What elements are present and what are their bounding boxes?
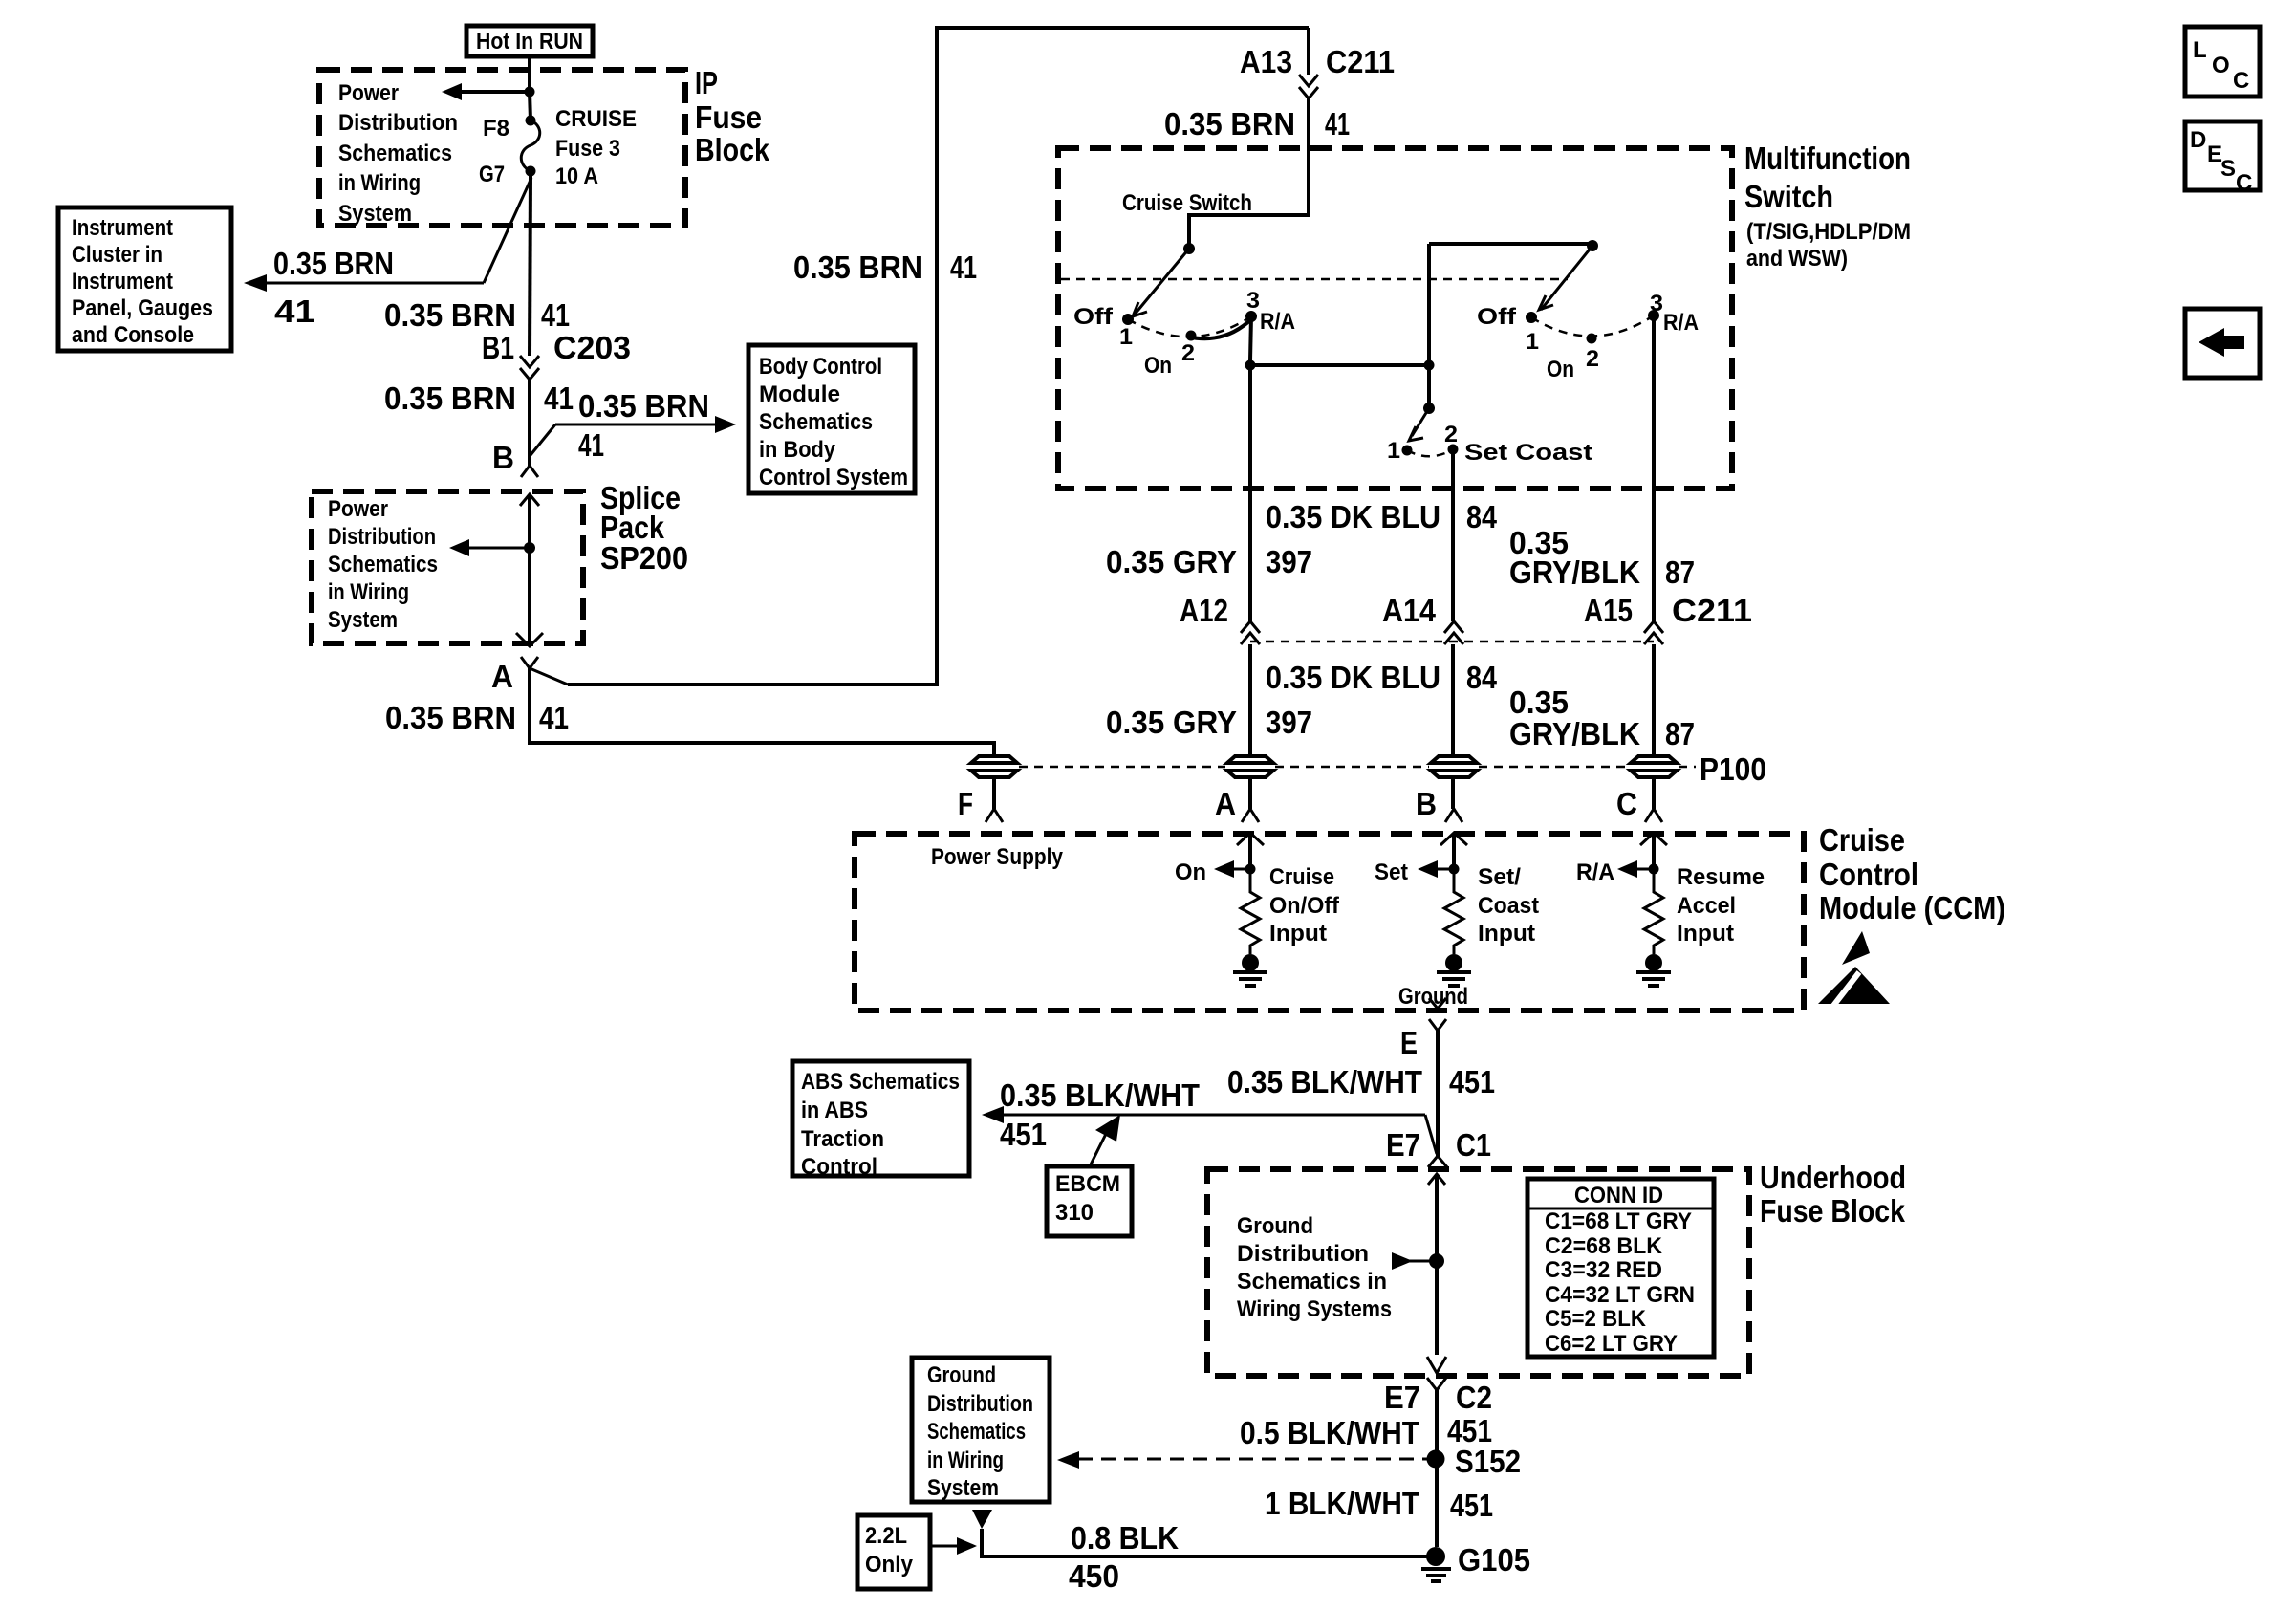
svg-text:Fuse Block: Fuse Block	[1760, 1193, 1906, 1229]
svg-text:0.35 BRN: 0.35 BRN	[1164, 106, 1295, 141]
svg-text:F: F	[958, 786, 973, 821]
svg-text:System: System	[927, 1475, 999, 1501]
svg-text:Instrument: Instrument	[72, 215, 173, 241]
svg-text:A15: A15	[1584, 593, 1633, 628]
svg-text:451: 451	[1449, 1064, 1495, 1099]
svg-text:C211: C211	[1672, 593, 1752, 628]
svg-text:0.35 BRN: 0.35 BRN	[385, 700, 516, 735]
svg-text:Off: Off	[1073, 304, 1114, 330]
svg-text:1 BLK/WHT: 1 BLK/WHT	[1265, 1486, 1419, 1521]
svg-text:Distribution: Distribution	[338, 110, 458, 136]
svg-text:10 A: 10 A	[555, 163, 598, 189]
svg-text:IP: IP	[695, 65, 718, 100]
svg-text:Ground: Ground	[1237, 1213, 1313, 1239]
svg-text:in Wiring: in Wiring	[328, 579, 409, 605]
svg-text:1: 1	[1119, 324, 1133, 350]
svg-text:451: 451	[1450, 1488, 1493, 1523]
svg-text:On: On	[1144, 353, 1172, 379]
svg-text:2: 2	[1444, 422, 1458, 447]
svg-text:R/A: R/A	[1663, 310, 1699, 336]
svg-text:and Console: and Console	[72, 322, 194, 348]
svg-text:0.35 BRN: 0.35 BRN	[273, 246, 394, 281]
svg-text:Coast: Coast	[1478, 893, 1539, 919]
svg-text:0.35 GRY: 0.35 GRY	[1106, 705, 1237, 740]
svg-text:Fuse: Fuse	[695, 99, 762, 135]
svg-text:Schematics: Schematics	[759, 409, 873, 435]
svg-text:E7: E7	[1384, 1380, 1420, 1415]
svg-text:Traction: Traction	[801, 1126, 884, 1152]
svg-text:Schematics: Schematics	[927, 1419, 1026, 1445]
svg-text:A14: A14	[1382, 593, 1437, 628]
svg-text:Distribution: Distribution	[927, 1391, 1033, 1417]
svg-text:On: On	[1175, 859, 1206, 885]
svg-text:Underhood: Underhood	[1760, 1160, 1906, 1195]
svg-text:CRUISE: CRUISE	[555, 106, 637, 132]
svg-text:Distribution: Distribution	[1237, 1241, 1369, 1267]
svg-text:Fuse 3: Fuse 3	[555, 136, 620, 162]
svg-text:0.8 BLK: 0.8 BLK	[1071, 1520, 1179, 1556]
svg-text:2.2L: 2.2L	[865, 1523, 907, 1549]
svg-text:C: C	[2233, 68, 2249, 94]
svg-text:84: 84	[1466, 660, 1498, 695]
svg-text:C203: C203	[553, 330, 631, 365]
svg-text:A: A	[1215, 786, 1236, 821]
svg-text:C: C	[1616, 786, 1637, 821]
svg-text:Power Supply: Power Supply	[931, 844, 1064, 870]
svg-text:C5=2 BLK: C5=2 BLK	[1545, 1306, 1647, 1332]
svg-text:F8: F8	[483, 116, 509, 141]
svg-text:A13: A13	[1240, 44, 1292, 79]
svg-text:Set/: Set/	[1478, 864, 1521, 890]
svg-text:B: B	[492, 440, 514, 475]
svg-text:Block: Block	[695, 132, 770, 167]
svg-text:GRY/BLK: GRY/BLK	[1509, 716, 1640, 751]
svg-text:Wiring Systems: Wiring Systems	[1237, 1296, 1392, 1322]
svg-text:Cruise Switch: Cruise Switch	[1122, 190, 1252, 216]
svg-text:Panel, Gauges: Panel, Gauges	[72, 295, 213, 321]
svg-text:Power: Power	[328, 496, 388, 522]
svg-text:397: 397	[1266, 705, 1312, 740]
svg-text:0.35 GRY: 0.35 GRY	[1106, 544, 1237, 579]
svg-text:451: 451	[1000, 1117, 1047, 1152]
svg-text:A: A	[491, 659, 513, 694]
svg-text:L: L	[2193, 37, 2207, 63]
svg-text:Module (CCM): Module (CCM)	[1819, 890, 2005, 925]
svg-text:41: 41	[274, 294, 315, 329]
svg-text:SP200: SP200	[600, 540, 688, 576]
svg-text:87: 87	[1665, 716, 1695, 751]
svg-text:S152: S152	[1455, 1444, 1521, 1479]
svg-text:Control System: Control System	[759, 465, 908, 490]
svg-text:Cruise: Cruise	[1269, 864, 1334, 890]
svg-text:Off: Off	[1477, 304, 1517, 330]
svg-text:in Wiring: in Wiring	[338, 170, 421, 196]
svg-text:S: S	[2220, 156, 2236, 182]
svg-text:R/A: R/A	[1260, 309, 1295, 335]
svg-text:Cluster in: Cluster in	[72, 242, 162, 268]
svg-text:310: 310	[1055, 1200, 1094, 1226]
svg-text:0.35 BRN: 0.35 BRN	[793, 250, 922, 285]
svg-text:D: D	[2190, 127, 2206, 153]
svg-text:0.35 DK BLU: 0.35 DK BLU	[1266, 499, 1440, 534]
svg-text:On: On	[1547, 357, 1574, 382]
svg-text:0.35 DK BLU: 0.35 DK BLU	[1266, 660, 1440, 695]
svg-text:System: System	[328, 607, 398, 633]
svg-text:Schematics: Schematics	[328, 552, 438, 577]
svg-text:in Wiring: in Wiring	[927, 1447, 1004, 1473]
svg-text:Switch: Switch	[1744, 179, 1833, 214]
svg-text:Hot In RUN: Hot In RUN	[476, 29, 583, 54]
svg-text:Input: Input	[1478, 921, 1535, 946]
svg-text:B1: B1	[482, 330, 514, 365]
svg-text:and WSW): and WSW)	[1746, 246, 1848, 272]
svg-text:41: 41	[578, 427, 604, 463]
svg-text:Schematics: Schematics	[338, 141, 452, 166]
svg-text:0.5 BLK/WHT: 0.5 BLK/WHT	[1240, 1415, 1419, 1450]
svg-text:G105: G105	[1458, 1542, 1530, 1577]
svg-text:Ground: Ground	[927, 1362, 996, 1388]
svg-text:41: 41	[541, 297, 570, 333]
svg-text:2: 2	[1586, 346, 1599, 372]
svg-text:Schematics in: Schematics in	[1237, 1269, 1387, 1295]
svg-text:ABS Schematics: ABS Schematics	[801, 1069, 960, 1095]
svg-text:3: 3	[1650, 291, 1663, 316]
svg-text:CONN ID: CONN ID	[1574, 1183, 1663, 1208]
svg-text:G7: G7	[479, 162, 505, 187]
svg-text:On/Off: On/Off	[1269, 893, 1340, 919]
svg-text:P100: P100	[1700, 751, 1766, 787]
svg-text:Set: Set	[1375, 859, 1408, 885]
svg-text:GRY/BLK: GRY/BLK	[1509, 555, 1640, 590]
svg-text:Control: Control	[801, 1154, 877, 1180]
svg-text:41: 41	[950, 250, 977, 285]
svg-text:2: 2	[1181, 340, 1195, 366]
svg-text:Input: Input	[1269, 921, 1327, 946]
svg-text:B: B	[1416, 786, 1437, 821]
svg-text:397: 397	[1266, 544, 1312, 579]
svg-text:41: 41	[544, 381, 574, 416]
svg-text:C: C	[2236, 170, 2252, 196]
svg-text:Ground: Ground	[1398, 984, 1468, 1010]
svg-text:C4=32 LT GRN: C4=32 LT GRN	[1545, 1282, 1695, 1308]
svg-text:C211: C211	[1326, 44, 1395, 79]
svg-text:C1: C1	[1456, 1127, 1491, 1163]
svg-text:(T/SIG,HDLP/DM: (T/SIG,HDLP/DM	[1746, 219, 1911, 245]
svg-text:Body Control: Body Control	[759, 354, 882, 380]
svg-text:C3=32 RED: C3=32 RED	[1545, 1257, 1662, 1283]
svg-text:O: O	[2212, 53, 2230, 78]
svg-text:0.35 BRN: 0.35 BRN	[384, 297, 516, 333]
svg-text:450: 450	[1069, 1558, 1119, 1594]
svg-text:in Body: in Body	[759, 437, 836, 463]
svg-text:C2=68 BLK: C2=68 BLK	[1545, 1233, 1663, 1259]
svg-text:84: 84	[1466, 499, 1498, 534]
svg-text:R/A: R/A	[1576, 859, 1614, 885]
svg-text:E7: E7	[1386, 1127, 1420, 1163]
svg-text:in ABS: in ABS	[801, 1098, 868, 1123]
svg-text:Module: Module	[759, 381, 840, 407]
svg-text:Accel: Accel	[1677, 893, 1736, 919]
svg-text:A12: A12	[1180, 593, 1228, 628]
svg-text:Only: Only	[865, 1552, 914, 1577]
svg-text:1: 1	[1526, 329, 1539, 355]
svg-text:C1=68 LT GRY: C1=68 LT GRY	[1545, 1208, 1692, 1234]
svg-text:Resume: Resume	[1677, 864, 1765, 890]
svg-text:System: System	[338, 201, 412, 227]
svg-text:EBCM: EBCM	[1055, 1171, 1120, 1197]
svg-text:3: 3	[1246, 288, 1260, 314]
svg-text:0.35 BRN: 0.35 BRN	[578, 388, 709, 424]
svg-text:41: 41	[539, 700, 569, 735]
svg-text:Input: Input	[1677, 921, 1734, 946]
svg-text:0.35: 0.35	[1509, 685, 1569, 720]
svg-text:Control: Control	[1819, 857, 1918, 892]
svg-text:41: 41	[1325, 106, 1350, 141]
svg-text:E: E	[1400, 1025, 1418, 1060]
svg-text:Set Coast: Set Coast	[1464, 440, 1592, 466]
svg-text:Cruise: Cruise	[1819, 822, 1905, 858]
svg-text:0.35 BRN: 0.35 BRN	[384, 381, 516, 416]
svg-text:1: 1	[1387, 438, 1400, 464]
svg-text:87: 87	[1665, 555, 1695, 590]
svg-text:Multifunction: Multifunction	[1744, 141, 1911, 176]
svg-text:Instrument: Instrument	[72, 269, 173, 294]
svg-text:C2: C2	[1456, 1380, 1492, 1415]
svg-text:0.35 BLK/WHT: 0.35 BLK/WHT	[1227, 1064, 1422, 1099]
svg-text:Power: Power	[338, 80, 399, 106]
svg-text:0.35 BLK/WHT: 0.35 BLK/WHT	[1000, 1077, 1200, 1113]
svg-text:Distribution: Distribution	[328, 524, 436, 550]
svg-text:C6=2 LT GRY: C6=2 LT GRY	[1545, 1331, 1678, 1357]
